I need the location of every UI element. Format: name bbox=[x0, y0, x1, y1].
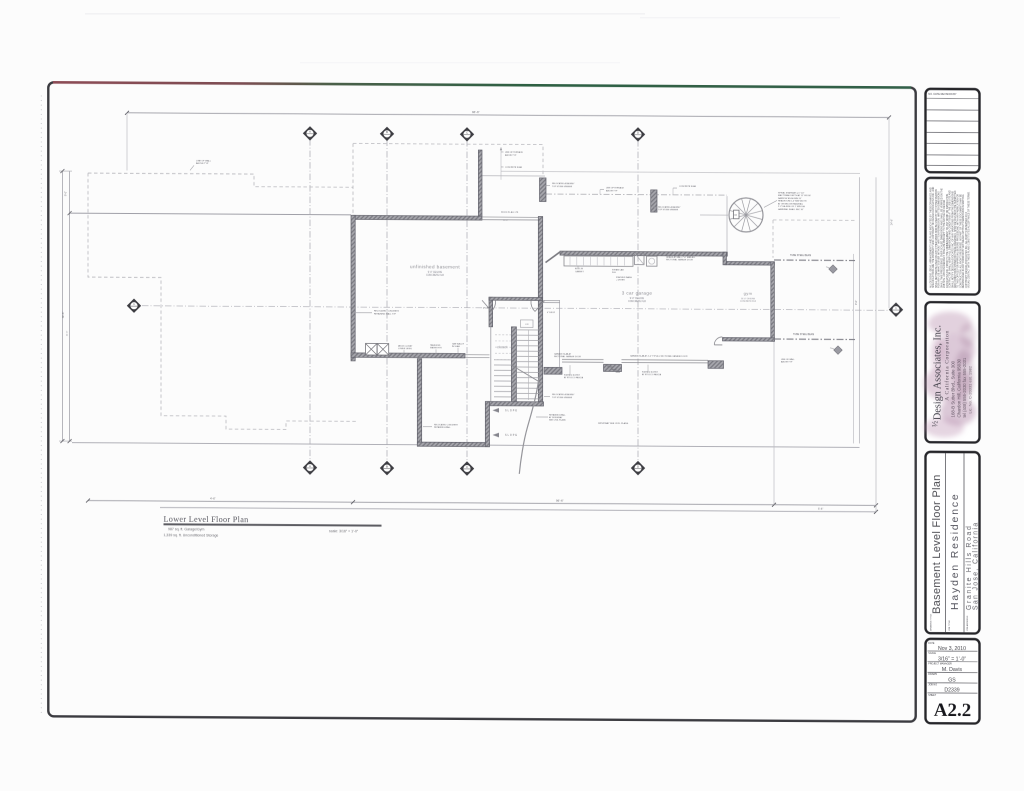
svg-text:GARAGE SLAB AT: GARAGE SLAB AT bbox=[554, 353, 572, 356]
svg-text:168-B Sutter Blvd., Suite 300: 168-B Sutter Blvd., Suite 300 bbox=[951, 360, 956, 417]
svg-text:ALL DESIGNS, IDEAS, ARRANGEMEN: ALL DESIGNS, IDEAS, ARRANGEMENTS AND PLA… bbox=[930, 186, 971, 288]
svg-text:SEE CIVIL PLANS: SEE CIVIL PLANS bbox=[549, 419, 566, 422]
svg-text:A: A bbox=[309, 464, 311, 468]
svg-text:WATER HTR: WATER HTR bbox=[430, 346, 442, 349]
svg-text:SECTIONAL GARAGE DOOR: SECTIONAL GARAGE DOOR bbox=[554, 355, 581, 358]
svg-text:Lower Level Floor Plan: Lower Level Floor Plan bbox=[164, 515, 249, 525]
svg-text:NARROW EDGE MIN 26”: NARROW EDGE MIN 26” bbox=[778, 197, 802, 200]
svg-text:½: ½ bbox=[930, 421, 939, 427]
svg-text:4” DROP: 4” DROP bbox=[547, 312, 556, 314]
svg-text:SPIRAL STAIRWAY w/ 7 1/2”: SPIRAL STAIRWAY w/ 7 1/2” bbox=[778, 191, 805, 194]
svg-text:+ DRYER: + DRYER bbox=[616, 279, 625, 281]
svg-text:TOP STONE VENEER: TOP STONE VENEER bbox=[552, 186, 573, 188]
svg-text:LOWER LEVEL: LOWER LEVEL bbox=[398, 348, 413, 350]
svg-text:IN SLAB: IN SLAB bbox=[452, 345, 460, 348]
svg-text:B: B bbox=[386, 464, 388, 468]
svg-text:TUBE STEEL BEAM: TUBE STEEL BEAM bbox=[793, 333, 814, 336]
svg-text:CONCRETE FLR: CONCRETE FLR bbox=[426, 275, 444, 277]
svg-text:DATE: DATE bbox=[928, 642, 935, 645]
svg-text:closet: closet bbox=[497, 344, 508, 349]
svg-text:24’-6”: 24’-6” bbox=[891, 219, 894, 225]
svg-text:Chardon Hill, California 95030: Chardon Hill, California 95030 bbox=[956, 358, 961, 417]
svg-text:SECTIONAL GARAGE DOOR: SECTIONAL GARAGE DOOR bbox=[666, 258, 693, 261]
svg-text:96’-6”: 96’-6” bbox=[556, 499, 564, 503]
svg-text:LINE OF TERRACE: LINE OF TERRACE bbox=[505, 151, 524, 154]
svg-text:AT OR BELOW HANDRAIL: AT OR BELOW HANDRAIL bbox=[778, 202, 804, 205]
svg-text:10’-0” CEILING: 10’-0” CEILING bbox=[741, 298, 756, 300]
svg-text:9’-6”: 9’-6” bbox=[855, 300, 858, 305]
svg-text:9’-0”: 9’-0” bbox=[65, 191, 68, 196]
svg-text:ABOVE TYP: ABOVE TYP bbox=[781, 361, 793, 364]
svg-text:B: B bbox=[386, 130, 388, 134]
svg-text:Lic. No. C-20331 est. 1982: Lic. No. C-20331 est. 1982 bbox=[967, 365, 972, 413]
svg-text:GS: GS bbox=[948, 677, 956, 683]
svg-text:SCALE: SCALE bbox=[928, 652, 936, 655]
svg-text:RELOCATED ACADEMY: RELOCATED ACADEMY bbox=[552, 182, 575, 185]
svg-text:9’-0” CEILING: 9’-0” CEILING bbox=[428, 272, 443, 274]
svg-text:A: A bbox=[309, 130, 311, 134]
svg-text:TOP STONE VENEER: TOP STONE VENEER bbox=[552, 397, 573, 399]
svg-text:3 car garage: 3 car garage bbox=[622, 291, 653, 296]
svg-text:SHEET: SHEET bbox=[928, 695, 936, 697]
svg-text:4’-6”: 4’-6” bbox=[210, 496, 216, 500]
svg-text:CONCRETE FLR: CONCRETE FLR bbox=[740, 301, 757, 303]
svg-text:LIN: LIN bbox=[525, 324, 529, 326]
svg-text:A California Corporation: A California Corporation bbox=[944, 330, 951, 401]
svg-text:C: C bbox=[466, 465, 468, 469]
svg-text:TOP STONE VENEER: TOP STONE VENEER bbox=[658, 209, 679, 211]
svg-text:C: C bbox=[466, 131, 468, 135]
svg-text:TUBE STEEL BEAM: TUBE STEEL BEAM bbox=[790, 254, 811, 257]
svg-text:HANDRAIL SHALL SEC 36”: HANDRAIL SHALL SEC 36” bbox=[778, 208, 804, 211]
svg-text:1,339 sq. ft. Unconditioned St: 1,339 sq. ft. Unconditioned Storage bbox=[164, 533, 219, 537]
svg-text:A2.2: A2.2 bbox=[934, 700, 971, 721]
svg-text:5’-6”: 5’-6” bbox=[818, 507, 823, 511]
svg-text:CABINET: CABINET bbox=[575, 270, 584, 273]
svg-text:9’-0” CEILING: 9’-0” CEILING bbox=[630, 298, 645, 300]
svg-text:San Jose, California: San Jose, California bbox=[972, 521, 979, 610]
svg-text:PROJECT MANAGER: PROJECT MANAGER bbox=[928, 663, 952, 666]
svg-text:CONCRETE SLAB: CONCRETE SLAB bbox=[679, 185, 697, 188]
svg-text:HEADROOM 6’-6” MIN WIDTH: HEADROOM 6’-6” MIN WIDTH bbox=[778, 200, 807, 203]
svg-text:Hayden Residence: Hayden Residence bbox=[949, 492, 961, 610]
svg-text:JOB NO: JOB NO bbox=[928, 685, 937, 687]
svg-text:DRAWN: DRAWN bbox=[928, 673, 937, 676]
svg-text:LINE OF WALL: LINE OF WALL bbox=[196, 159, 212, 162]
svg-text:DRIVEWAY SEE CIVIL PLANS: DRIVEWAY SEE CIVIL PLANS bbox=[598, 422, 629, 425]
svg-text:CONCRETE FLR: CONCRETE FLR bbox=[628, 301, 646, 303]
svg-text:30’-6”: 30’-6” bbox=[62, 312, 65, 319]
svg-text:BUILT-IN: BUILT-IN bbox=[575, 268, 584, 270]
svg-text:NO. DATE REVISION B: NO. DATE REVISION BY bbox=[928, 93, 957, 96]
svg-text:DRAWING TITLE: DRAWING TITLE bbox=[930, 613, 933, 631]
svg-text:AT STUCCO FASCIA: AT STUCCO FASCIA bbox=[564, 376, 584, 379]
svg-text:unfinished basement: unfinished basement bbox=[410, 264, 460, 269]
svg-text:WOOD FL ALL LTS: WOOD FL ALL LTS bbox=[501, 211, 519, 214]
svg-text:RELOCATED CONCRETE: RELOCATED CONCRETE bbox=[434, 423, 459, 426]
svg-text:RETAINING WALL: RETAINING WALL bbox=[434, 426, 452, 429]
svg-text:2’-2” EA SIDE OF 1” MIN DIA: 2’-2” EA SIDE OF 1” MIN DIA bbox=[778, 205, 805, 208]
svg-text:M. Davis: M. Davis bbox=[942, 667, 963, 673]
svg-text:987 sq. ft. Garage/Gym: 987 sq. ft. Garage/Gym bbox=[168, 527, 204, 531]
svg-text:96’-6”: 96’-6” bbox=[472, 110, 480, 114]
svg-text:SLOPE: SLOPE bbox=[505, 434, 518, 437]
svg-text:scale: 3/16” = 1’-0”: scale: 3/16” = 1’-0” bbox=[329, 529, 359, 533]
svg-text:tel (408) 555-2030 fax 555-20: tel (408) 555-2030 fax 555-2031 bbox=[962, 357, 967, 418]
svg-text:D: D bbox=[637, 131, 639, 135]
svg-text:RETAINING WALL TYP: RETAINING WALL TYP bbox=[374, 312, 397, 315]
svg-text:gym: gym bbox=[744, 291, 753, 296]
svg-text:RELOCATED ACADEMY: RELOCATED ACADEMY bbox=[658, 206, 681, 209]
svg-text:GARAGE SLAB AT 4’-0” TYP ALL S: GARAGE SLAB AT 4’-0” TYP ALL SECTIONAL G… bbox=[630, 354, 688, 357]
svg-text:RELOCATED CONCRETE: RELOCATED CONCRETE bbox=[374, 309, 400, 312]
svg-text:ABOVE TYP: ABOVE TYP bbox=[606, 189, 618, 192]
svg-text:CONCRETE SLAB: CONCRETE SLAB bbox=[505, 166, 523, 169]
svg-text:SLOPE: SLOPE bbox=[505, 409, 518, 412]
svg-text:12’-0”: 12’-0” bbox=[503, 220, 508, 222]
svg-text:LINE OF WALL: LINE OF WALL bbox=[781, 358, 796, 361]
svg-text:AT STUCCO FASCIA: AT STUCCO FASCIA bbox=[642, 373, 662, 376]
svg-text:ABOVE TYP: ABOVE TYP bbox=[196, 162, 209, 165]
svg-text:Basement Level Floor Plan: Basement Level Floor Plan bbox=[931, 474, 943, 614]
svg-text:ABOVE TYP: ABOVE TYP bbox=[505, 154, 517, 157]
svg-text:11’-6”: 11’-6” bbox=[67, 330, 69, 336]
svg-text:RELOCATED ACADEMY: RELOCATED ACADEMY bbox=[552, 393, 575, 396]
svg-text:MAX TREAD DEPTH AT 12” FROM: MAX TREAD DEPTH AT 12” FROM bbox=[778, 194, 811, 197]
svg-text:STEAM CAB: STEAM CAB bbox=[612, 268, 624, 271]
svg-text:D: D bbox=[637, 464, 639, 468]
svg-text:LINE OF TERRACE: LINE OF TERRACE bbox=[606, 186, 625, 189]
svg-text:JOB ADDRESS: JOB ADDRESS bbox=[966, 615, 969, 631]
svg-text:JOB TITLE: JOB TITLE bbox=[949, 620, 951, 631]
svg-text:Design Associates, Inc.: Design Associates, Inc. bbox=[933, 325, 944, 420]
svg-text:6” DROP: 6” DROP bbox=[483, 307, 492, 309]
